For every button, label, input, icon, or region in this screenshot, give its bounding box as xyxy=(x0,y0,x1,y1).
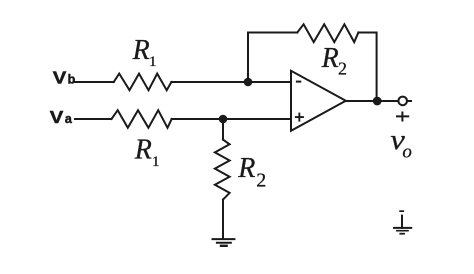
resistor R1 (top, series with Vb) xyxy=(114,74,172,91)
ground (bottom middle) xyxy=(213,239,235,246)
wire R1 to inverting input xyxy=(171,81,291,83)
resistor R2 (shunt to ground) xyxy=(215,140,230,200)
ground (right, reference) xyxy=(394,216,411,234)
svg-text:o: o xyxy=(402,142,412,163)
svg-text:R: R xyxy=(321,43,339,74)
wire node to R2 shunt xyxy=(222,119,224,140)
svg-text:1: 1 xyxy=(149,54,157,70)
op-amp U1 xyxy=(291,71,346,131)
op-amp minus marker xyxy=(296,81,301,83)
svg-text:b: b xyxy=(68,73,76,87)
node junction dot (inverting input) xyxy=(244,78,253,87)
wire R1 to noninverting input xyxy=(172,118,291,120)
svg-text:R: R xyxy=(237,153,255,184)
wire output xyxy=(346,100,398,102)
wire output stub xyxy=(408,100,411,102)
resistor R2 (feedback) xyxy=(297,24,358,42)
node output dot xyxy=(373,97,382,106)
polarity plus (output, below terminal) xyxy=(396,112,409,122)
svg-text:1: 1 xyxy=(152,154,160,170)
svg-text:2: 2 xyxy=(256,170,266,192)
resistor R1 (bottom, series with Va) xyxy=(112,110,172,128)
wire Va input xyxy=(75,118,112,120)
svg-text:V: V xyxy=(50,108,64,128)
wire feedback right to output xyxy=(358,33,376,102)
svg-text:a: a xyxy=(65,112,73,126)
svg-text:V: V xyxy=(53,69,67,89)
svg-text:R: R xyxy=(134,135,152,166)
wire R2 to ground xyxy=(222,200,224,239)
wire Vb input xyxy=(75,81,114,83)
wire feedback left vertical xyxy=(248,33,297,83)
svg-text:R: R xyxy=(132,35,150,66)
op-amp plus marker xyxy=(295,113,304,122)
terminal output circle xyxy=(398,97,407,106)
polarity minus (above right ground) xyxy=(399,210,404,212)
node junction dot (noninverting input) xyxy=(219,115,228,124)
svg-text:2: 2 xyxy=(338,58,347,78)
